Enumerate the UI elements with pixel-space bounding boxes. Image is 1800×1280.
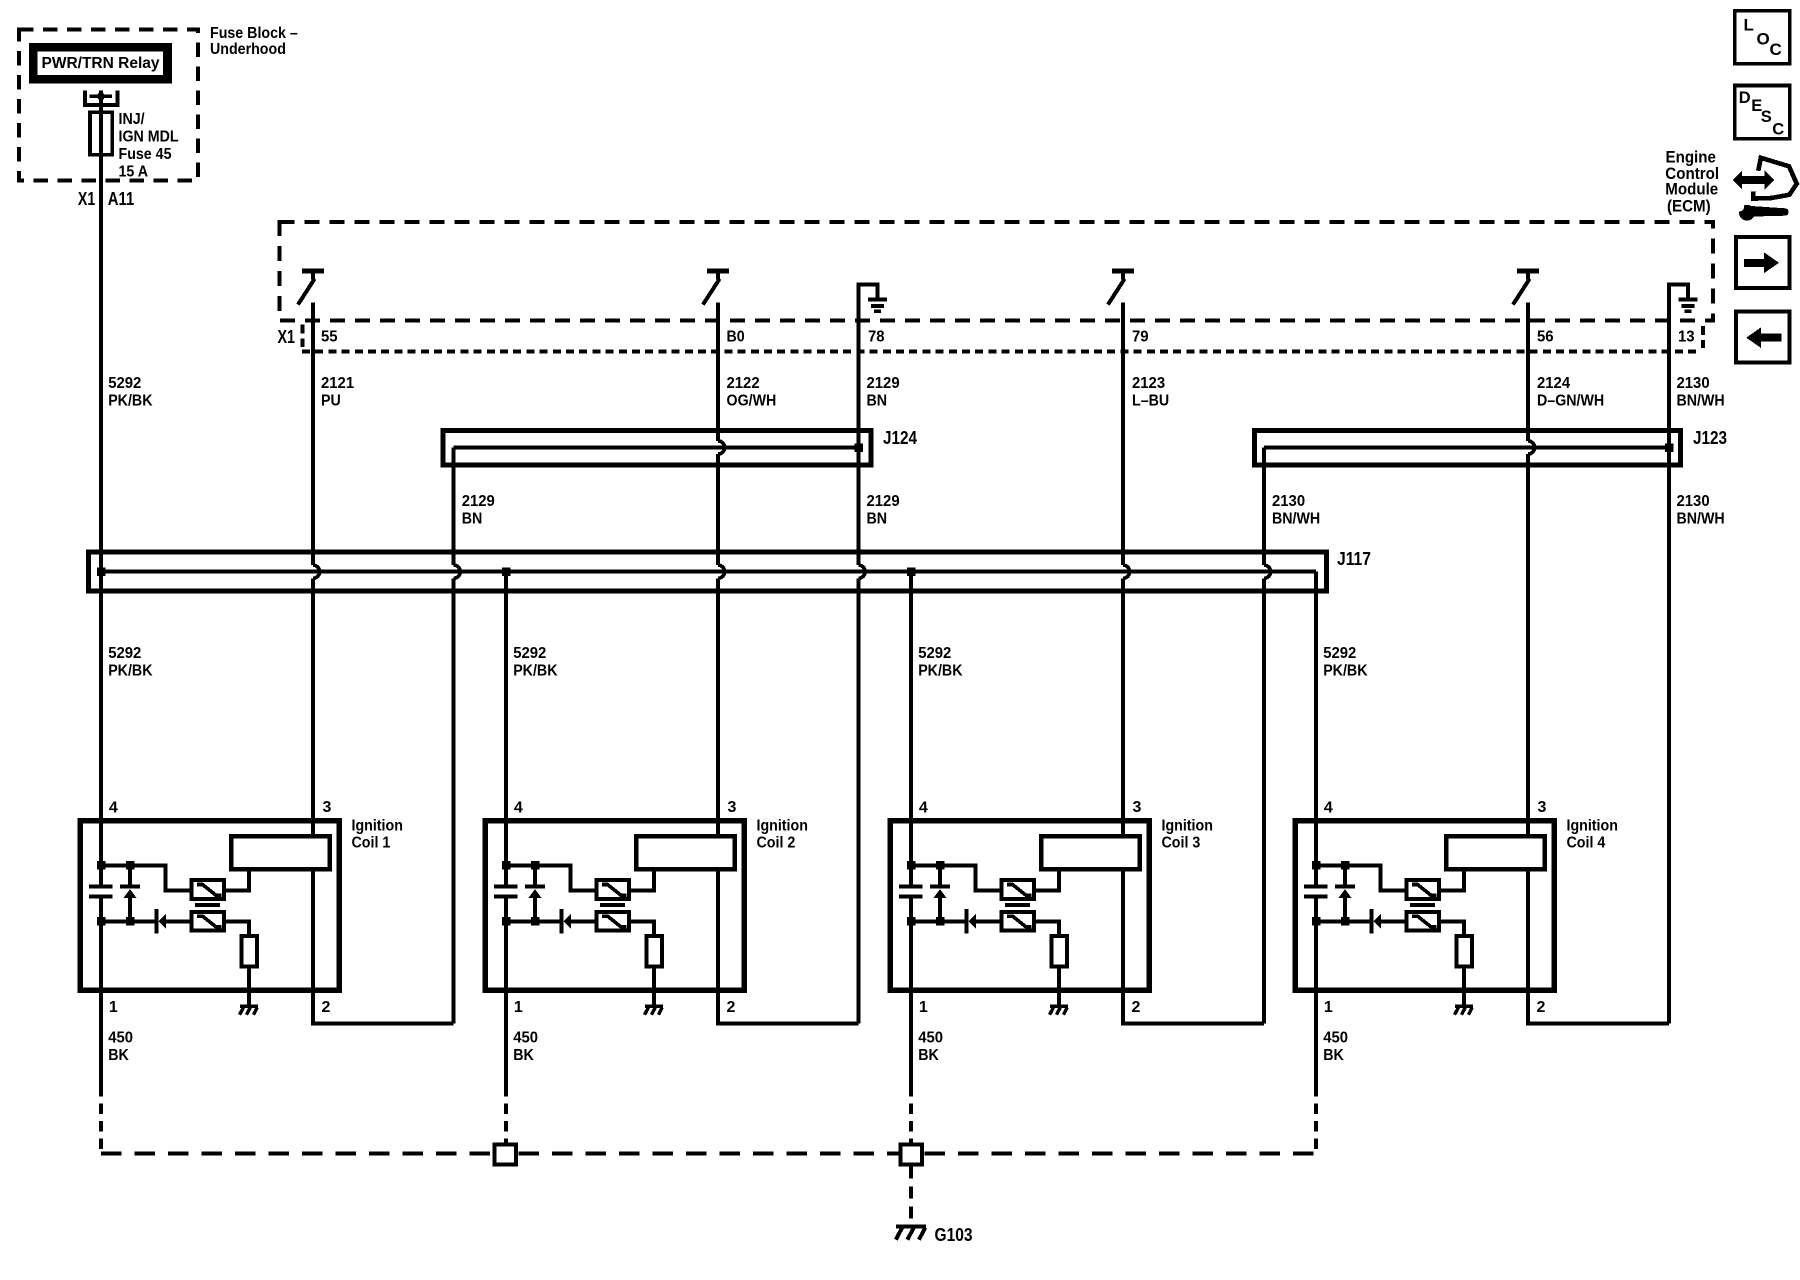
svg-text:BK: BK (918, 1047, 939, 1064)
svg-text:PWR/TRN Relay: PWR/TRN Relay (42, 55, 160, 72)
coil 1 driver stage 1 (192, 880, 225, 899)
svg-text:2121: 2121 (321, 375, 354, 392)
coil 4 internal chassis ground (1455, 1006, 1474, 1014)
svg-text:(ECM): (ECM) (1667, 196, 1711, 215)
svg-text:A11: A11 (108, 189, 134, 209)
coil 1 label (352, 818, 403, 852)
splice box (coil 2 ground) (495, 1144, 517, 1164)
svg-text:2123: 2123 (1132, 375, 1165, 392)
coil 4 driver stage 2 (1407, 912, 1440, 931)
svg-text:1: 1 (514, 999, 523, 1016)
svg-text:Fuse Block –: Fuse Block – (210, 25, 298, 42)
svg-text:Ignition: Ignition (1162, 818, 1213, 835)
coil 1 node B+ junctions (97, 861, 134, 870)
wire 5292 PK/BK from fuse to coil 1 (99, 155, 103, 885)
svg-text:X1: X1 (278, 327, 296, 347)
svg-text:450: 450 (918, 1030, 943, 1047)
coil 1 450 BK label (108, 1030, 133, 1065)
coil 2 wire driver 2 to resistor (629, 921, 654, 936)
svg-text:5292: 5292 (918, 645, 951, 662)
coil 3 wire driver 1 to winding (1034, 869, 1059, 890)
ECM dashed box (279, 222, 1713, 320)
dashed ground wire coil 3 (909, 1086, 913, 1142)
coil 1 wire driver 2 to resistor (224, 921, 249, 936)
svg-text:450: 450 (1323, 1030, 1348, 1047)
coil 3 capacitor (899, 885, 923, 899)
coil 1 wire driver 1 to winding (224, 869, 249, 890)
dashed wire splice to G103 (909, 1167, 913, 1223)
svg-text:J124: J124 (883, 428, 917, 448)
coil 1 pin labels (109, 799, 332, 1016)
wire 2129 BN J124 to coil 1 pin 2 path (452, 448, 456, 566)
coil 4 primary winding (1446, 836, 1545, 869)
coil 2 wire resistor to ground (652, 967, 656, 1005)
coil 3 isolation bar (1005, 903, 1030, 907)
ECM output driver Q2 (704, 268, 729, 303)
svg-text:BN/WH: BN/WH (1677, 511, 1725, 528)
svg-text:2129: 2129 (462, 493, 495, 510)
splice box (coil 3 ground) (901, 1144, 923, 1164)
coil 1 zener diode (120, 865, 140, 921)
svg-text:G103: G103 (935, 1225, 973, 1245)
svg-text:INJ/: INJ/ (119, 111, 146, 128)
svg-text:J117: J117 (1337, 549, 1371, 569)
svg-text:2130: 2130 (1677, 375, 1710, 392)
coil 1 primary winding (231, 836, 330, 869)
coil 3 wire driver 2 to resistor (1034, 921, 1059, 936)
svg-text:450: 450 (513, 1030, 538, 1047)
coil 2 label (757, 818, 808, 852)
svg-text:4: 4 (919, 799, 928, 816)
wire 2129 BN J124 to coil 2 pin 2 path (857, 448, 861, 566)
svg-text:L: L (1744, 15, 1754, 34)
svg-text:BN: BN (462, 511, 483, 528)
wire 2130 BN/WH pin 13 to J123 (1667, 284, 1671, 447)
svg-text:BN/WH: BN/WH (1272, 511, 1320, 528)
coil 2 wire ground branch (506, 919, 559, 923)
wire 5292 PK/BK J117 to coil 2 pin 4 (504, 572, 508, 885)
svg-text:13: 13 (1678, 328, 1695, 345)
coil 3 internal chassis ground (1050, 1006, 1069, 1014)
coil 4 pin labels (1324, 799, 1547, 1016)
coil 3 node B+ junctions (907, 861, 944, 870)
coil 4 wire resistor to ground (1462, 967, 1466, 1005)
icon LOC box (1735, 11, 1790, 64)
svg-text:Coil 3: Coil 3 (1162, 835, 1201, 852)
ignition coil 1 box (80, 821, 339, 991)
ECM output driver Q4 (1514, 268, 1539, 303)
coil 2 primary winding (636, 836, 735, 869)
coil 2 pin 2 wire (718, 869, 859, 1024)
coil 3 primary winding (1041, 836, 1140, 869)
coil 4 wire ground branch (1316, 919, 1369, 923)
svg-text:2: 2 (1132, 999, 1141, 1016)
svg-text:PK/BK: PK/BK (513, 663, 558, 680)
icon arrow right box (1736, 237, 1790, 288)
svg-text:2: 2 (322, 999, 331, 1016)
icon service wrench (1733, 198, 1789, 221)
icon service double arrow (1733, 171, 1775, 190)
svg-text:Coil 1: Coil 1 (352, 835, 391, 852)
coil 3 node ground junctions (907, 917, 944, 926)
svg-text:1: 1 (919, 999, 928, 1016)
coil 3 driver stage 1 (1002, 880, 1035, 899)
svg-text:PK/BK: PK/BK (1323, 663, 1368, 680)
svg-text:4: 4 (1324, 799, 1333, 816)
svg-text:IGN MDL: IGN MDL (119, 129, 179, 146)
coil 3 zener diode (930, 865, 950, 921)
wire relay to fuse (99, 91, 103, 113)
svg-text:Fuse 45: Fuse 45 (119, 146, 172, 163)
coil 4 wire 450 BK pin 1 (1314, 898, 1318, 1086)
coil 3 pin labels (919, 799, 1142, 1016)
svg-text:1: 1 (1324, 999, 1333, 1016)
dashed ground wire coil 2 (504, 1086, 508, 1142)
svg-text:D–GN/WH: D–GN/WH (1537, 392, 1604, 409)
splice J123 box (1255, 431, 1681, 466)
wire labels below J124/J123 (462, 493, 1725, 528)
icon service hand outline (1753, 158, 1797, 199)
relay output terminal clip (83, 91, 120, 108)
svg-text:Ignition: Ignition (352, 818, 403, 835)
wire 5292 PK/BK J117 to coil 3 pin 4 (909, 572, 913, 885)
wire 2121 PU pin 55 to coil 1 pin 3 (311, 303, 315, 566)
ECM internal ground (pin 78) (857, 284, 888, 313)
svg-text:BK: BK (108, 1047, 129, 1064)
svg-text:55: 55 (321, 328, 338, 345)
svg-text:3: 3 (1538, 799, 1547, 816)
coil 2 pin labels (514, 799, 737, 1016)
svg-text:56: 56 (1537, 328, 1554, 345)
svg-text:3: 3 (323, 799, 332, 816)
dashed ground bus segment 2 (518, 1152, 898, 1156)
ground G103 (896, 1227, 926, 1240)
icon DESC box (1735, 86, 1790, 139)
coil 3 driver stage 2 (1002, 912, 1035, 931)
fuse block label (210, 25, 298, 58)
fuse label (119, 111, 179, 181)
wire 2122 OG/WH pin B0 to coil 2 pin 3 (716, 303, 720, 441)
coil 3 diode (965, 909, 1002, 934)
node X1 A11 labels (78, 189, 134, 209)
coil 3 wire 450 BK pin 1 (909, 898, 913, 1086)
coil 2 wire B+ branch to driver (506, 865, 596, 890)
coil 2 wire 450 BK pin 1 (504, 898, 508, 1086)
coil 2 isolation bar (600, 903, 625, 907)
coil 3 label (1162, 818, 1213, 852)
svg-text:Ignition: Ignition (1567, 818, 1618, 835)
dashed ground bus segment 1 (101, 1152, 492, 1156)
svg-text:BN: BN (867, 511, 888, 528)
coil 2 node ground junctions (502, 917, 539, 926)
coil 2 driver stage 1 (597, 880, 630, 899)
coil 4 wire driver 2 to resistor (1439, 921, 1464, 936)
fuse F45 INJ/IGN MDL 15A (90, 112, 112, 154)
svg-text:O: O (1757, 30, 1770, 49)
svg-text:2: 2 (727, 999, 736, 1016)
coil 1 capacitor (89, 885, 113, 899)
svg-text:OG/WH: OG/WH (727, 392, 777, 409)
coil 4 node ground junctions (1312, 917, 1349, 926)
coil 2 resistor (646, 936, 662, 967)
coil 1 wire 450 BK pin 1 (99, 898, 103, 1086)
coil 3 pin 2 wire (1123, 869, 1264, 1024)
svg-text:2122: 2122 (727, 375, 760, 392)
svg-text:15 A: 15 A (119, 164, 149, 181)
wire 2129 BN pin 78 to J124 (857, 284, 861, 447)
ECM connector X1 dotted line (302, 350, 1701, 354)
coil 4 diode (1370, 909, 1407, 934)
svg-text:C: C (1772, 121, 1784, 139)
svg-text:B0: B0 (727, 328, 745, 345)
coil 3 resistor (1051, 936, 1067, 967)
ECM output driver Q1 (299, 268, 324, 303)
coil 1 pin 2 wire (313, 869, 454, 1024)
svg-text:BK: BK (513, 1047, 534, 1064)
coil 4 isolation bar (1410, 903, 1435, 907)
svg-text:5292: 5292 (108, 375, 141, 392)
dashed ground wire coil 1 (99, 1086, 103, 1154)
splice J124 box (443, 431, 871, 466)
splice J117 box (89, 552, 1327, 591)
svg-text:Ignition: Ignition (757, 818, 808, 835)
svg-text:C: C (1770, 40, 1782, 59)
svg-text:2: 2 (1537, 999, 1546, 1016)
svg-text:2129: 2129 (867, 375, 900, 392)
splice J117 inner line (97, 567, 1316, 576)
svg-text:79: 79 (1132, 328, 1149, 345)
svg-text:5292: 5292 (108, 645, 141, 662)
svg-text:J123: J123 (1693, 428, 1727, 448)
ignition coil 4 box (1295, 821, 1554, 991)
coil 2 node B+ junctions (502, 861, 539, 870)
svg-text:78: 78 (868, 328, 885, 345)
ECM pin labels (321, 328, 1695, 345)
coil 3 450 BK label (918, 1030, 943, 1065)
ECM output driver Q3 (1109, 268, 1134, 303)
svg-text:PK/BK: PK/BK (108, 392, 153, 409)
coil 2 driver stage 2 (597, 912, 630, 931)
svg-text:PK/BK: PK/BK (918, 663, 963, 680)
coil 4 wire driver 1 to winding (1439, 869, 1464, 890)
svg-text:L–BU: L–BU (1132, 392, 1169, 409)
coil 3 wire resistor to ground (1057, 967, 1061, 1005)
coil 1 wire resistor to ground (247, 967, 251, 1005)
coil 1 diode (155, 909, 192, 934)
coil 2 capacitor (494, 885, 518, 899)
svg-text:BN/WH: BN/WH (1677, 392, 1725, 409)
svg-text:Underhood: Underhood (210, 41, 286, 58)
svg-text:3: 3 (728, 799, 737, 816)
coil 2 zener diode (525, 865, 545, 921)
icon arrow left box (1736, 312, 1790, 363)
wire 5292 PK/BK J117 to coil 4 pin 4 (1314, 572, 1318, 885)
svg-text:D: D (1739, 89, 1751, 107)
splice J123 inner line (1264, 443, 1673, 452)
svg-text:BN: BN (867, 392, 888, 409)
dashed ground bus segment 3 (924, 1152, 1316, 1156)
coil 1 resistor (241, 936, 257, 967)
coil 4 450 BK label (1323, 1030, 1348, 1065)
coil 4 pin 2 wire (1528, 869, 1669, 1024)
ignition coil 2 box (485, 821, 744, 991)
coil 1 internal chassis ground (240, 1006, 259, 1014)
coil 1 wire ground branch (101, 919, 154, 923)
svg-text:BK: BK (1323, 1047, 1344, 1064)
svg-text:5292: 5292 (1323, 645, 1356, 662)
coil 1 wire B+ branch to driver (101, 865, 191, 890)
wire 2130 BN/WH J123 to coil 3 pin 2 path (1262, 448, 1266, 566)
coil 3 wire ground branch (911, 919, 964, 923)
coil 2 wire driver 1 to winding (629, 869, 654, 890)
coil 1 driver stage 2 (192, 912, 225, 931)
fuse block underhood dashed box (19, 30, 198, 181)
ignition coil 3 box (890, 821, 1149, 991)
svg-text:2130: 2130 (1677, 493, 1710, 510)
svg-text:Coil 4: Coil 4 (1567, 835, 1606, 852)
wire 2123 L-BU pin 79 to coil 3 pin 3 (1121, 303, 1125, 566)
svg-text:4: 4 (109, 799, 118, 816)
coil 2 diode (560, 909, 597, 934)
wire labels below J117 (108, 645, 1368, 680)
coil 1 node ground junctions (97, 917, 134, 926)
coil 4 zener diode (1335, 865, 1355, 921)
wire 2124 D-GN/WH pin 56 to coil 4 pin 3 (1526, 303, 1530, 441)
coil 4 label (1567, 818, 1618, 852)
svg-text:450: 450 (108, 1030, 133, 1047)
coil 3 wire B+ branch to driver (911, 865, 1001, 890)
svg-text:PU: PU (321, 392, 341, 409)
coil 2 internal chassis ground (645, 1006, 664, 1014)
coil 4 wire B+ branch to driver (1316, 865, 1406, 890)
coil 4 capacitor (1304, 885, 1328, 899)
ECM internal ground (pin 13) (1667, 284, 1698, 313)
svg-text:2124: 2124 (1537, 375, 1570, 392)
ECM label (1665, 147, 1719, 215)
X1 connector bracket left (301, 325, 305, 348)
relay K1 PWR/TRN Relay (29, 43, 172, 84)
svg-text:2130: 2130 (1272, 493, 1305, 510)
coil 4 node B+ junctions (1312, 861, 1349, 870)
coil 4 driver stage 1 (1407, 880, 1440, 899)
wire 2130 BN/WH J123 to coil 4 pin 2 path (1667, 448, 1671, 1024)
svg-text:PK/BK: PK/BK (108, 663, 153, 680)
coil 1 isolation bar (195, 903, 220, 907)
coil 2 450 BK label (513, 1030, 538, 1065)
svg-text:5292: 5292 (513, 645, 546, 662)
svg-text:X1: X1 (78, 189, 95, 209)
X1 connector bracket right (1701, 326, 1705, 348)
dashed ground wire coil 4 (1314, 1086, 1318, 1154)
coil 4 resistor (1456, 936, 1472, 967)
svg-text:S: S (1761, 108, 1772, 126)
splice J124 inner line (454, 443, 863, 452)
svg-text:3: 3 (1133, 799, 1142, 816)
svg-text:2129: 2129 (867, 493, 900, 510)
svg-text:1: 1 (109, 999, 118, 1016)
svg-text:4: 4 (514, 799, 523, 816)
svg-text:Coil 2: Coil 2 (757, 835, 796, 852)
wire labels below ECM (108, 375, 1725, 410)
